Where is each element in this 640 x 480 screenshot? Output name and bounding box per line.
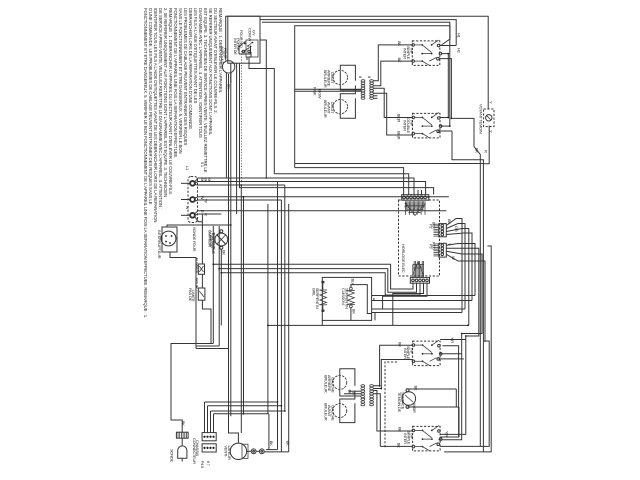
svg-text:BK: BK — [398, 427, 403, 432]
junction bb — [467, 325, 469, 327]
control right connector P2 — [439, 224, 447, 237]
svg-text:FUSIBLE: FUSIBLE — [194, 258, 199, 274]
svg-text:N: N — [185, 206, 190, 209]
broil coil GRIL — [319, 289, 327, 291]
svg-text:VOYANT TEMOIN: VOYANT TEMOIN — [478, 104, 483, 134]
wire s3r4 — [438, 358, 464, 360]
wire fuse to dome — [181, 438, 183, 446]
wire fr top — [340, 86, 355, 100]
svg-text:L1: L1 — [185, 166, 190, 171]
wire bus v4 — [236, 63, 238, 214]
svg-text:INTERRUPTEUR: INTERRUPTEUR — [157, 230, 162, 259]
door switch box — [228, 16, 260, 63]
wire cb left drops — [171, 344, 213, 433]
wire feed rbk — [295, 88, 361, 90]
wire feed bkw — [295, 90, 361, 92]
wire row bc0 — [205, 401, 278, 403]
svg-text:W|BR: W|BR — [412, 403, 417, 413]
wire bb r3 — [372, 308, 465, 310]
svg-text:BK|R: BK|R — [397, 114, 402, 123]
wire v213 ext — [212, 264, 214, 343]
wire bb left — [321, 320, 323, 325]
surface indicator lamp — [402, 392, 416, 406]
wire s1r3 — [439, 59, 451, 119]
wire ind bottom — [408, 406, 460, 408]
wire L2-b — [195, 214, 222, 215]
wire ind top — [408, 388, 457, 390]
fusible thermique box — [176, 432, 188, 438]
wire N-a — [195, 197, 449, 198]
wire bc drop1 — [207, 406, 209, 433]
wire s4 bottom — [440, 341, 489, 446]
wire s3r2 — [440, 346, 459, 437]
control top connector — [402, 195, 429, 201]
terminal stubs — [181, 182, 190, 184]
svg-text:BK: BK — [396, 443, 401, 448]
wire sect feeder — [295, 163, 484, 165]
svg-text:BK: BK — [475, 148, 480, 153]
svg-text:BK: BK — [286, 441, 291, 446]
svg-text:FOUR: FOUR — [223, 48, 228, 59]
wire fl top — [340, 391, 355, 404]
wire feed bl2 — [344, 393, 361, 395]
svg-text:W: W — [204, 199, 209, 203]
svg-text:BK|R: BK|R — [397, 131, 402, 140]
wire plug join — [256, 450, 259, 452]
wire c6 — [374, 97, 378, 99]
wire row bc3 — [214, 413, 269, 415]
wire bus v3 — [230, 63, 232, 416]
wire bus v5 — [240, 63, 434, 194]
svg-text:SURFACE: SURFACE — [401, 392, 406, 410]
oven lamp circle — [222, 61, 234, 73]
svg-text:INF: INF — [410, 433, 415, 440]
wire pin4 run — [393, 283, 424, 325]
wire bb r1 — [372, 295, 475, 297]
wire bulb down — [220, 249, 222, 325]
junction bl — [379, 385, 381, 387]
wire bl c4 — [374, 394, 381, 447]
oven lamp stub left — [225, 73, 227, 83]
wire s2r1 — [441, 117, 449, 119]
plug small 2 — [259, 449, 264, 454]
wire drop b — [280, 200, 282, 452]
wire long mid vertical — [267, 204, 269, 414]
svg-text:BK: BK — [447, 219, 452, 224]
oven door switch circle — [161, 231, 176, 246]
burner element front left — [333, 404, 347, 418]
wire N-b — [195, 200, 282, 201]
svg-text:GY: GY — [252, 30, 257, 36]
wire L2-c — [195, 217, 203, 222]
wire funnel b — [452, 131, 483, 452]
wire c5 — [374, 95, 378, 97]
wire bake bottom — [350, 308, 352, 321]
wire pin stub 6 — [421, 190, 423, 195]
control right connector P3 — [439, 243, 447, 257]
svg-text:BK: BK — [181, 421, 186, 426]
wire bc drop0 — [204, 402, 206, 433]
wire c3 — [374, 88, 413, 117]
svg-text:INF: INF — [409, 48, 414, 55]
wire fr bottom — [340, 98, 355, 118]
svg-text:BK: BK — [269, 441, 274, 446]
bake broil loop — [322, 277, 371, 320]
wire row bc1 — [208, 405, 282, 407]
svg-text:R: R — [204, 213, 209, 216]
oven bulb filament — [217, 235, 226, 244]
wire bus v3 branch — [167, 225, 231, 227]
fan motor — [230, 443, 246, 459]
terminal block — [188, 177, 198, 223]
svg-text:GAUCHE: GAUCHE — [330, 405, 335, 421]
junction s2 — [447, 117, 449, 119]
wire bus v2 — [229, 74, 239, 442]
svg-text:FOUR N.O.: FOUR N.O. — [239, 30, 244, 49]
connector top-right colL — [361, 80, 365, 100]
terminal L1 — [190, 181, 195, 186]
wire lamp to box step — [249, 52, 274, 174]
wire p2-3 — [446, 229, 469, 326]
svg-text:BK: BK — [397, 58, 402, 63]
wire bb r2 — [373, 298, 375, 301]
wire p2-2 — [446, 224, 465, 310]
svg-text:SERPENTIN: SERPENTIN — [315, 288, 320, 309]
wire pin3 run — [221, 273, 420, 295]
svg-text:GAUCHE: GAUCHE — [330, 377, 335, 393]
wire c1 — [374, 45, 413, 81]
wire drop e — [240, 185, 242, 433]
svg-text:8: 8 — [358, 76, 363, 79]
wire rl bottom — [340, 389, 361, 396]
svg-text:R: R — [351, 392, 356, 395]
voyant box — [484, 109, 494, 127]
door switch contacts — [238, 42, 251, 55]
svg-text:W: W — [451, 256, 456, 260]
svg-text:DROIT: DROIT — [330, 102, 335, 114]
wire pin stub 5 — [417, 190, 419, 195]
wire bake top right — [351, 285, 372, 314]
oven bulb — [215, 233, 228, 246]
wire door box down right — [260, 40, 266, 178]
wire pin2 run — [219, 226, 416, 292]
wire long mid horizontal — [268, 324, 469, 326]
svg-text:P4 5: P4 5 — [200, 461, 205, 469]
svg-text:INF: INF — [410, 120, 415, 127]
wire feed bl1 — [349, 390, 361, 392]
wire bl c1 — [374, 345, 413, 386]
svg-text:SERPENTIN: SERPENTIN — [345, 288, 350, 309]
wire bc drop3 — [213, 414, 215, 433]
svg-text:BK/W: BK/W — [318, 89, 323, 99]
bake coil CUISSON — [350, 287, 353, 290]
plug small 1 — [251, 449, 256, 454]
wire v219 ext — [218, 269, 220, 346]
svg-text:FOUR: FOUR — [194, 278, 199, 289]
voyant lamp — [486, 115, 492, 121]
wire fl bottom — [340, 403, 355, 422]
oven lamp stub right — [230, 73, 232, 83]
broil coil ticks — [321, 281, 324, 283]
wire s3r3 — [440, 353, 462, 355]
wire small stub — [246, 57, 248, 60]
wire funnel a — [451, 118, 480, 446]
wire rr bottom — [340, 85, 361, 90]
connector top-right colR — [370, 80, 374, 100]
svg-text:R: R — [484, 150, 489, 153]
connector bl colL — [361, 385, 365, 406]
wire ind right v — [455, 389, 457, 407]
wire c2 — [374, 61, 413, 86]
svg-text:BK: BK — [397, 41, 402, 46]
svg-text:OR: OR — [454, 226, 459, 232]
wire feeder r3 — [264, 177, 414, 179]
svg-text:HORLOGE ELEC: HORLOGE ELEC — [401, 244, 406, 273]
wire feeder r1 — [295, 168, 404, 195]
sonde dome — [178, 446, 187, 458]
svg-text:H1: H1 — [457, 33, 462, 39]
bottom connector block — [202, 433, 216, 441]
control top comb — [406, 201, 426, 215]
terminal L2 — [190, 213, 195, 218]
svg-text:SONDE FOUR: SONDE FOUR — [192, 227, 197, 252]
svg-text:LATEUR: LATEUR — [227, 446, 232, 460]
svg-text:Y|R: Y|R — [445, 431, 450, 437]
wire pin1 run — [213, 226, 413, 289]
wire fan top — [237, 442, 239, 444]
wire s3r1 — [440, 339, 466, 341]
control bottom connector — [410, 278, 429, 284]
control bottom comb — [413, 261, 424, 277]
wire s2r2 — [441, 125, 450, 127]
infinite switch S2 — [412, 113, 442, 138]
wire p3-3 — [446, 251, 482, 333]
svg-text:Y: Y — [489, 101, 494, 104]
wire neutral top run — [260, 20, 456, 46]
wire top-right section feeder — [295, 26, 450, 168]
wire fuse1-fuse2 — [201, 274, 203, 288]
wire fuse2 down — [202, 300, 211, 343]
wire p2-1 — [446, 219, 462, 313]
svg-text:H2: H2 — [457, 48, 462, 54]
wire feeder r2 — [274, 174, 408, 195]
svg-text:Y|R: Y|R — [450, 337, 455, 343]
svg-text:8: 8 — [367, 76, 372, 79]
bottom connector block2 — [202, 444, 216, 452]
wire voyant down — [483, 126, 489, 164]
svg-text:6 7: 6 7 — [206, 461, 211, 467]
wire door sw bottom — [170, 252, 196, 349]
wire bl c2 — [374, 360, 413, 389]
wire L1-c — [195, 184, 285, 186]
wire L1-a — [195, 178, 414, 195]
limiteur F2 — [198, 288, 205, 300]
svg-text:INF: INF — [410, 348, 415, 355]
wire s4 bottom2 — [444, 246, 491, 452]
svg-text:BK: BK — [222, 250, 227, 255]
wire s1r1 — [440, 45, 456, 47]
wire bl c3 — [374, 391, 413, 432]
wire L1-b — [195, 182, 426, 195]
svg-text:CHASSIS: CHASSIS — [195, 440, 200, 456]
infinite switch S3 — [412, 340, 442, 365]
wire p3-2 — [446, 248, 479, 336]
wire drop a — [277, 182, 279, 450]
wire s2r3 — [438, 130, 452, 132]
oven door switch body — [162, 227, 177, 252]
fuse1 wire top — [201, 214, 203, 264]
infinite switch S4 — [412, 426, 442, 451]
wire plug runs — [266, 449, 278, 451]
wire drop d — [288, 204, 290, 452]
wire p2-4 — [446, 233, 472, 301]
wire s4 left — [380, 445, 412, 447]
svg-text:LIMITE: LIMITE — [191, 290, 196, 302]
fuse thermique F1 — [198, 264, 204, 274]
wire rl top — [340, 369, 355, 386]
oven bulb terminal top — [220, 230, 223, 233]
wire L2-a — [195, 211, 446, 214]
wire pin5 run — [383, 283, 427, 309]
wire p3-1 — [446, 244, 475, 296]
door switch labels — [233, 28, 258, 57]
wire bb r4 — [374, 313, 376, 321]
wire drop f — [243, 197, 245, 414]
svg-text:BK: BK — [352, 309, 357, 314]
wire p3-4 — [446, 254, 485, 341]
wire L1 top run — [226, 16, 489, 109]
wire row bc2 — [211, 410, 285, 412]
svg-text:DROIT: DROIT — [330, 72, 335, 84]
wire drop c — [284, 185, 286, 411]
svg-text:FONCTIONNEMENT ET ETRE DANGERE: FONCTIONNEMENT ET ETRE DANGEREUX. 5. VER… — [143, 8, 148, 318]
infinite switch S1 — [412, 40, 442, 65]
wire lamp left drop — [225, 83, 227, 178]
burner element rear right — [333, 70, 347, 84]
oven bulb terminal bottom — [220, 246, 223, 249]
svg-text:BK: BK — [413, 386, 418, 391]
wire dotted bus — [241, 51, 243, 183]
svg-text:SONDE: SONDE — [170, 449, 175, 463]
wire rr loop — [340, 65, 355, 81]
burner element front right — [333, 100, 347, 114]
wire s1r2 — [442, 54, 448, 118]
svg-text:BK: BK — [398, 342, 403, 347]
wire top line3 — [262, 22, 450, 126]
wire bc drop2 — [210, 411, 212, 433]
control board outline — [399, 200, 440, 276]
terminal N — [190, 197, 195, 202]
svg-text:BK: BK — [207, 177, 212, 182]
wire sect br border — [385, 362, 397, 448]
oven door switch pins — [165, 235, 167, 237]
connector bl colR — [370, 385, 374, 406]
wire c4 — [374, 93, 413, 135]
burner element rear left — [333, 375, 347, 389]
notes text block — [143, 8, 223, 318]
wire fan right — [247, 450, 252, 452]
